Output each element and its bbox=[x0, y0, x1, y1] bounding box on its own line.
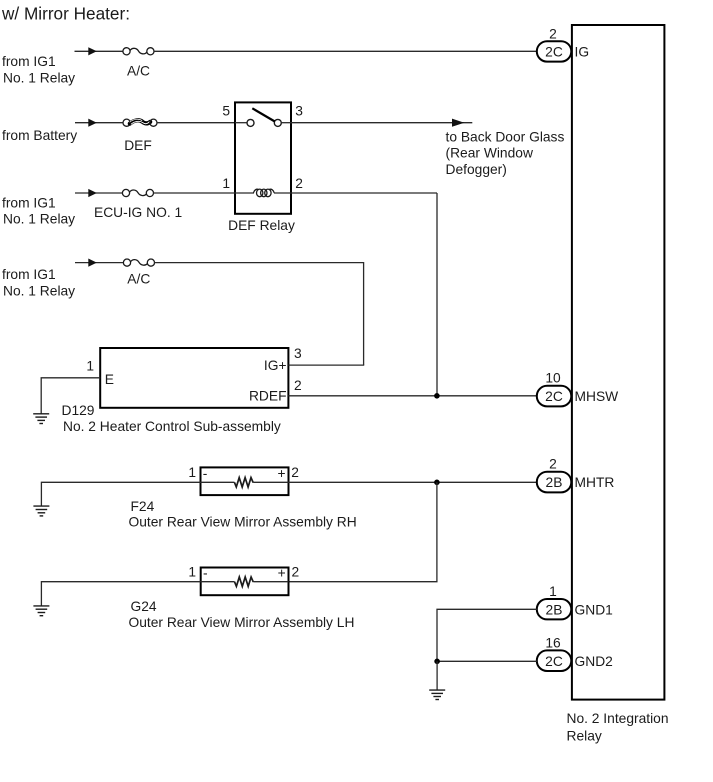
wire F24 left to ground bbox=[41, 482, 200, 506]
connector 2C IG bbox=[537, 41, 572, 61]
svg-text:D129: D129 bbox=[62, 403, 95, 418]
svg-text:Defogger): Defogger) bbox=[446, 162, 507, 177]
wire RDEF to MHSW bbox=[288, 395, 537, 397]
label No. 2 Integration Relay bbox=[567, 711, 669, 743]
wire row2 left bbox=[75, 122, 123, 124]
svg-text:3: 3 bbox=[294, 346, 302, 361]
svg-text:No. 2 Heater Control Sub-assem: No. 2 Heater Control Sub-assembly bbox=[63, 419, 281, 434]
wire row3 to relay pin1 bbox=[153, 192, 235, 194]
svg-text:2: 2 bbox=[291, 465, 299, 480]
arrow row4 bbox=[88, 259, 97, 267]
svg-text:(Rear Window: (Rear Window bbox=[446, 146, 533, 161]
fuse A/C row4 bbox=[123, 259, 154, 266]
resistor G24 mirror heater LH bbox=[201, 568, 289, 596]
svg-text:2: 2 bbox=[295, 176, 303, 191]
svg-text:2: 2 bbox=[549, 457, 557, 472]
svg-text:MHSW: MHSW bbox=[575, 389, 619, 404]
wire relay pin2 to node bbox=[291, 192, 437, 194]
junction MHSW bbox=[434, 393, 440, 399]
wire MHTR junction down to G24 line bbox=[289, 482, 437, 581]
wire GND stem bbox=[436, 661, 438, 690]
svg-text:from IG1: from IG1 bbox=[2, 267, 56, 282]
ground (D129) bbox=[33, 414, 49, 424]
svg-text:from Battery: from Battery bbox=[2, 128, 77, 143]
svg-text:DEF: DEF bbox=[124, 138, 152, 153]
svg-text:1: 1 bbox=[86, 359, 94, 374]
connector 2B MHTR bbox=[537, 472, 572, 493]
IC No. 2 Integration Relay box bbox=[572, 25, 665, 700]
wire row4 right and bend down bbox=[154, 263, 363, 366]
resistor element G24 bbox=[201, 577, 289, 586]
svg-text:Relay: Relay bbox=[567, 729, 602, 744]
svg-text:-: - bbox=[203, 466, 208, 481]
svg-text:2: 2 bbox=[549, 26, 557, 41]
fusible link DEF bbox=[123, 119, 157, 126]
label from IG1 No.1 Relay (row 3) bbox=[2, 195, 75, 226]
svg-text:2: 2 bbox=[292, 565, 300, 580]
svg-text:IG+: IG+ bbox=[264, 358, 287, 373]
arrow to defogger bbox=[452, 119, 464, 127]
wire relay pin3 to defogger bbox=[291, 122, 472, 124]
svg-text:3: 3 bbox=[295, 104, 303, 119]
fuse A/C row1 bbox=[123, 48, 154, 55]
IC D129 heater control box bbox=[100, 348, 288, 408]
svg-text:1: 1 bbox=[222, 176, 230, 191]
resistor element F24 bbox=[201, 478, 289, 487]
svg-text:Outer Rear View Mirror Assembl: Outer Rear View Mirror Assembly LH bbox=[129, 615, 355, 630]
label to Back Door Glass bbox=[446, 129, 565, 177]
relay DEF Relay box bbox=[235, 102, 291, 213]
wire GND2 bbox=[437, 660, 537, 662]
junction GND2 bbox=[434, 659, 440, 665]
svg-text:2C: 2C bbox=[545, 654, 563, 669]
svg-text:+: + bbox=[277, 466, 285, 481]
svg-text:IG: IG bbox=[575, 44, 590, 59]
connector 2B GND1 bbox=[537, 599, 572, 619]
wire G24 left to ground bbox=[41, 582, 200, 606]
svg-text:No. 1 Relay: No. 1 Relay bbox=[3, 283, 75, 298]
svg-text:1: 1 bbox=[188, 565, 196, 580]
svg-text:10: 10 bbox=[545, 370, 561, 385]
relay switch arm bbox=[252, 108, 274, 121]
svg-text:from IG1: from IG1 bbox=[2, 54, 56, 69]
svg-text:+: + bbox=[278, 566, 286, 581]
svg-text:1: 1 bbox=[188, 465, 196, 480]
wire row3 left bbox=[75, 192, 123, 194]
svg-text:Outer Rear View Mirror Assembl: Outer Rear View Mirror Assembly RH bbox=[129, 515, 357, 530]
label from IG1 No.1 Relay (row 4) bbox=[2, 267, 75, 298]
arrow row3 bbox=[88, 189, 97, 197]
arrow row2 bbox=[88, 119, 97, 127]
wire IG+ bbox=[288, 364, 364, 366]
wire E to ground bbox=[41, 378, 100, 414]
ground (GND2) bbox=[429, 690, 445, 699]
svg-text:MHTR: MHTR bbox=[575, 475, 615, 490]
svg-text:ECU-IG NO. 1: ECU-IG NO. 1 bbox=[94, 205, 182, 220]
svg-text:2B: 2B bbox=[546, 475, 563, 490]
svg-text:F24: F24 bbox=[131, 499, 155, 514]
svg-text:2: 2 bbox=[294, 378, 302, 393]
svg-text:to Back Door Glass: to Back Door Glass bbox=[446, 129, 565, 144]
svg-text:RDEF: RDEF bbox=[249, 389, 287, 404]
ground (F24) bbox=[33, 506, 49, 516]
wire row4 left bbox=[75, 262, 123, 264]
svg-text:-: - bbox=[203, 566, 208, 581]
wire row1 right bbox=[154, 50, 537, 52]
svg-text:GND2: GND2 bbox=[575, 654, 613, 669]
wire row2 to relay bbox=[157, 122, 235, 124]
relay coil bbox=[235, 189, 291, 197]
svg-text:5: 5 bbox=[222, 104, 230, 119]
relay switch contacts bbox=[235, 119, 291, 126]
svg-text:No. 1 Relay: No. 1 Relay bbox=[3, 212, 75, 227]
wire F24 to MHTR bbox=[289, 481, 537, 483]
svg-text:w/ Mirror Heater:: w/ Mirror Heater: bbox=[1, 4, 130, 24]
svg-text:16: 16 bbox=[545, 636, 561, 651]
label from IG1 No.1 Relay (row 1) bbox=[2, 54, 75, 85]
svg-text:No. 1 Relay: No. 1 Relay bbox=[3, 70, 75, 85]
resistor F24 mirror heater RH bbox=[201, 467, 289, 495]
svg-text:A/C: A/C bbox=[127, 63, 150, 78]
svg-text:G24: G24 bbox=[131, 599, 157, 614]
svg-text:GND1: GND1 bbox=[575, 602, 613, 617]
svg-text:A/C: A/C bbox=[127, 271, 150, 286]
junction MHTR bbox=[434, 480, 440, 486]
svg-text:E: E bbox=[105, 372, 114, 387]
svg-text:from IG1: from IG1 bbox=[2, 195, 56, 210]
ground (G24) bbox=[33, 606, 49, 616]
connector 2C MHSW bbox=[537, 386, 572, 407]
arrow row1 bbox=[88, 47, 97, 55]
wire GND1 to ground stem bbox=[437, 609, 537, 661]
svg-text:1: 1 bbox=[549, 584, 557, 599]
wire row1 left bbox=[75, 50, 123, 52]
connector 2C GND2 bbox=[537, 650, 572, 671]
svg-text:No. 2 Integration: No. 2 Integration bbox=[567, 711, 669, 726]
fuse ECU-IG NO. 1 bbox=[122, 189, 153, 196]
svg-text:2C: 2C bbox=[545, 44, 563, 59]
svg-text:DEF Relay: DEF Relay bbox=[228, 218, 295, 233]
wire vertical pin2 down to MHSW line bbox=[436, 193, 438, 396]
svg-text:2B: 2B bbox=[546, 602, 563, 617]
svg-text:2C: 2C bbox=[545, 389, 563, 404]
